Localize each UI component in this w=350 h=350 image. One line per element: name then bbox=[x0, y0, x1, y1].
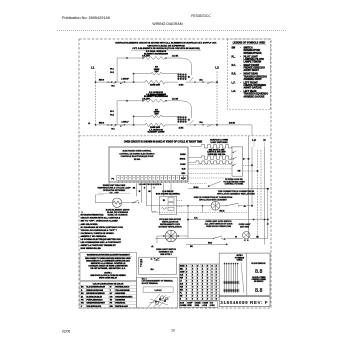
svg-text:OVEN DOOR OPEN/CLOSE: OVEN DOOR OPEN/CLOSE bbox=[206, 226, 232, 228]
surface element LF bottom wire bbox=[134, 124, 178, 126]
chart legend strip bbox=[179, 301, 217, 307]
model number FES367DCC bbox=[191, 14, 211, 18]
light switch assembly box bbox=[139, 257, 177, 274]
svg-text:LAMPARA PILOTO: LAMPARA PILOTO bbox=[244, 58, 265, 61]
svg-text:P4-2: P4-2 bbox=[110, 71, 114, 74]
surface element LF coil labels bbox=[142, 97, 179, 100]
surface element RF name label bottom bbox=[148, 91, 165, 96]
svg-text:NOTE 1: NOTE 1 bbox=[104, 272, 112, 274]
bake feed drop from EOC bbox=[95, 195, 104, 203]
svg-text:FES367DCC: FES367DCC bbox=[191, 14, 211, 18]
svg-text:CKT. D.ELEMENTS DE SURFACE (TO: CKT. D.ELEMENTS DE SURFACE (TOUS CIRCUIT… bbox=[132, 47, 199, 50]
switch oven light door switch bbox=[213, 236, 243, 240]
svg-text:P5: P5 bbox=[140, 260, 142, 262]
footer page number 10 bbox=[171, 329, 175, 333]
rail EOC to convection circuit bbox=[146, 183, 148, 206]
svg-text:BK-41: BK-41 bbox=[220, 210, 225, 213]
svg-text:WHEN UNIT REACHES: WHEN UNIT REACHES bbox=[103, 184, 126, 187]
svg-text:LEFT REAR: LEFT REAR bbox=[244, 90, 257, 93]
svg-text:SEE NOTE 3: SEE NOTE 3 bbox=[160, 254, 171, 256]
DLB relay output wires bbox=[177, 201, 183, 207]
bake element E1 bbox=[95, 198, 136, 207]
note 4 cell border bbox=[137, 277, 178, 308]
legend title bbox=[232, 42, 267, 44]
svg-text:AVANT DROIT: AVANT DROIT bbox=[244, 69, 260, 72]
display cell header bbox=[251, 262, 266, 265]
oven relay contact chart table bbox=[179, 264, 219, 301]
svg-text:318046089 REV: F: 318046089 REV: F bbox=[220, 300, 268, 305]
svg-text:RED 8: RED 8 bbox=[99, 123, 104, 125]
svg-text:14-4 BK: 14-4 BK bbox=[172, 97, 179, 100]
svg-text:BAKE ELEMENT 2500W: BAKE ELEMENT 2500W bbox=[106, 209, 130, 212]
svg-text:BAKE: BAKE bbox=[180, 153, 186, 156]
svg-text:MFG LATCH ASSEMBLY SEE LATCHE: MFG LATCH ASSEMBLY SEE LATCHES bbox=[217, 193, 255, 196]
svg-text:L1: L1 bbox=[88, 123, 90, 125]
door latch switch bbox=[208, 181, 221, 187]
svg-text:BOX SHOWN DE-ENERG.: BOX SHOWN DE-ENERG. bbox=[156, 193, 181, 195]
svg-text:WARNING/ADVERTENCIA/AVERTISSEM: WARNING/ADVERTENCIA/AVERTISSEMENT bbox=[87, 254, 131, 257]
EOC left edge stub bbox=[108, 182, 110, 186]
svg-text:TRASERO IZQUIERDO: TRASERO IZQUIERDO bbox=[244, 93, 269, 96]
assembly pin list bbox=[140, 260, 143, 268]
svg-text:ON - OFF: ON - OFF bbox=[109, 193, 119, 195]
surface element LF terminal cluster bbox=[177, 116, 193, 129]
bake element label bbox=[106, 209, 130, 217]
note 4 text bbox=[142, 277, 174, 285]
svg-text:8.8: 8.8 bbox=[255, 269, 263, 275]
part number box 318046089 bbox=[219, 297, 270, 307]
convection fan motor M1 bbox=[147, 201, 220, 210]
oven light lamp L1 bbox=[235, 232, 268, 242]
svg-text:LES COMMANDES SUR LA POSITION: LES COMMANDES SUR LA POSITION ET bbox=[81, 241, 122, 244]
EOC pin labels bbox=[180, 153, 187, 180]
surface element LF top wire bbox=[117, 100, 191, 118]
N rail vertical bbox=[264, 147, 266, 245]
junction triangle below cooling fan bbox=[151, 245, 154, 247]
svg-text:SP-1: SP-1 bbox=[110, 111, 114, 113]
clock control assembly outer box bbox=[219, 253, 270, 295]
svg-text:VIOLET/VIOLETA: VIOLET/VIOLETA bbox=[87, 305, 102, 308]
oven light label bbox=[239, 224, 252, 229]
surface element LF middle wire bbox=[134, 115, 181, 117]
svg-text:MOTEUR VENTILATEUR: MOTEUR VENTILATEUR bbox=[158, 226, 182, 229]
EOC terminal strip lead stubs bbox=[118, 180, 185, 186]
surface element RF coil labels bbox=[142, 55, 179, 58]
svg-text:DLB: DLB bbox=[182, 169, 186, 171]
wire N.O. row bbox=[187, 218, 269, 221]
svg-text:MFG LATCH WITH CURRENT: MFG LATCH WITH CURRENT bbox=[199, 198, 227, 201]
surface element RF inner coil element bbox=[151, 67, 162, 75]
node L2 (surface supply) bbox=[215, 66, 219, 125]
vertical stub under conv wire bbox=[202, 205, 204, 213]
clock display glyph upper bbox=[255, 269, 263, 275]
surface element RF left vertical bbox=[133, 73, 135, 83]
svg-text:INTERRUPTEUR: INTERRUPTEUR bbox=[244, 53, 262, 55]
svg-text:BLOCK TERMINAL: BLOCK TERMINAL bbox=[142, 282, 159, 285]
wire light assembly to rail 2 bbox=[243, 170, 259, 172]
oven light switch assembly label bbox=[156, 249, 177, 256]
svg-text:CONV: CONV bbox=[180, 164, 186, 166]
svg-text:TODOS LOS CONTROLES A "OFF" Y: TODOS LOS CONTROLES A "OFF" Y bbox=[81, 229, 118, 232]
svg-text:ES 300: ES 300 bbox=[134, 159, 140, 161]
L2 rail vertical bbox=[251, 147, 253, 206]
assembly connector marks bbox=[150, 258, 159, 261]
svg-text:ELEMENT 1200W: ELEMENT 1200W bbox=[148, 132, 165, 134]
DLB relay label bbox=[156, 190, 181, 195]
DLB relay internals bbox=[162, 198, 175, 211]
legend box bbox=[228, 39, 271, 110]
svg-text:SW: SW bbox=[238, 171, 241, 173]
svg-text:N: N bbox=[263, 138, 265, 142]
surface element LF feed vertical to outer coil bbox=[110, 101, 117, 125]
svg-text:14-4 BK: 14-4 BK bbox=[172, 55, 179, 58]
bake element note text bbox=[97, 184, 131, 195]
surface elements note text bbox=[115, 41, 217, 50]
switch SW-RF surface switch bbox=[107, 78, 129, 88]
svg-text:L.R.: L.R. bbox=[232, 91, 237, 93]
svg-text:SP-1: SP-1 bbox=[110, 68, 114, 70]
svg-text:8.8: 8.8 bbox=[255, 288, 263, 294]
svg-text:LE SCHEMA ELECTRIQUE METTRE S: LE SCHEMA ELECTRIQUE METTRE SUR bbox=[81, 238, 122, 241]
svg-text:ARRET LA PORTE EST FERMEE ET: ARRET LA PORTE EST FERMEE ET bbox=[81, 244, 117, 247]
node L1 (surface supply) bbox=[91, 66, 96, 125]
legend entries bbox=[232, 48, 269, 99]
svg-text:LT: LT bbox=[180, 281, 182, 283]
svg-text:ES 300 P12: ES 300 P12 bbox=[254, 281, 263, 283]
svg-text:3 CONV: 3 CONV bbox=[203, 303, 209, 305]
svg-text:A SW-LF: A SW-LF bbox=[121, 120, 128, 123]
wire light assembly to L2 rail bbox=[243, 164, 253, 166]
latch sketch bbox=[153, 257, 161, 261]
svg-text:L1 N L2: L1 N L2 bbox=[155, 290, 162, 292]
label between connectors bbox=[207, 149, 226, 156]
cooling fan note text bbox=[158, 218, 182, 229]
clock display glyph lower bbox=[255, 288, 263, 294]
surface element RF bottom wire bbox=[134, 81, 178, 83]
svg-text:DE CET APPAREIL. SEE NOTES 1 &: DE CET APPAREIL. SEE NOTES 1 & 2. bbox=[90, 267, 126, 270]
auxiliary rail 1 bbox=[248, 136, 250, 239]
svg-text:120V 40W: 120V 40W bbox=[240, 225, 249, 228]
wire color code table bbox=[80, 282, 137, 308]
assembly current label bbox=[150, 268, 154, 271]
svg-text:CABLE: CABLE bbox=[237, 258, 244, 261]
connector J2 square-wave row bbox=[188, 156, 232, 159]
svg-text:CIRCUIT SHOWN WITH ALL CONTROL: CIRCUIT SHOWN WITH ALL CONTROLS bbox=[81, 217, 121, 220]
svg-text:AVANT GAUCHE: AVANT GAUCHE bbox=[244, 87, 263, 90]
switch bake relay contact bbox=[132, 196, 139, 203]
oven light loop right vertical bbox=[266, 220, 269, 239]
surface element LF name label bottom bbox=[148, 128, 165, 133]
svg-text:AND UNLOCKED.: AND UNLOCKED. bbox=[81, 223, 99, 226]
auxiliary rail 2 bbox=[257, 150, 259, 239]
MDL wire to N rail bbox=[188, 186, 269, 220]
footer date 02/05 bbox=[62, 329, 70, 333]
svg-text:L1: L1 bbox=[91, 66, 95, 70]
surface element RF bottom coil element bbox=[145, 80, 165, 86]
junction triangle on convection wire bbox=[243, 205, 253, 207]
light assembly switch contacts bbox=[233, 151, 241, 173]
svg-text:CACERADO, PUERTA DE HORNO: CACERADO, PUERTA DE HORNO bbox=[81, 232, 115, 235]
svg-text:ELEMENT 3000W/1500W: ELEMENT 3000W/1500W bbox=[144, 53, 168, 55]
svg-text:PRF: PRF bbox=[180, 277, 183, 279]
svg-text:TEMPERATURE & CYCLES LAMP: TEMPERATURE & CYCLES LAMP bbox=[97, 187, 131, 190]
svg-text:ABIERTA Y NO CERRADA.: ABIERTA Y NO CERRADA. bbox=[81, 235, 108, 238]
EOC internal label bbox=[119, 151, 155, 161]
connector J1 square-wave row bbox=[190, 145, 232, 148]
svg-text:X=ON: X=ON bbox=[180, 303, 184, 305]
svg-text:LIGHT SWITCHES: LIGHT SWITCHES bbox=[210, 142, 228, 144]
svg-text:L2: L2 bbox=[252, 138, 256, 142]
svg-text:ELEM. DE CUISSON: ELEM. DE CUISSON bbox=[108, 215, 128, 217]
svg-text:NON VERROUILLEE.: NON VERROUILLEE. bbox=[81, 248, 102, 250]
ribbon cable label bbox=[235, 255, 245, 261]
svg-text:N.O.: N.O. bbox=[194, 218, 198, 220]
svg-text:W12: W12 bbox=[208, 242, 212, 244]
svg-text:PL: PL bbox=[180, 293, 182, 295]
surface element LF name label bbox=[144, 93, 168, 98]
svg-text:CLOCK DISPLAY: CLOCK DISPLAY bbox=[251, 262, 266, 265]
rail wire color labels bbox=[133, 188, 156, 194]
surface element RF terminal cluster bbox=[177, 73, 193, 86]
svg-text:1200W 240V: 1200W 240V bbox=[150, 83, 161, 86]
svg-text:ELEM. DE HORNEAR: ELEM. DE HORNEAR bbox=[107, 211, 128, 214]
switch convection relay bbox=[220, 203, 252, 206]
surface element LF outer coil element bbox=[142, 99, 167, 102]
svg-text:ELECTRONIC OVEN CONTROL: ELECTRONIC OVEN CONTROL bbox=[123, 151, 153, 153]
node N (neutral) bbox=[263, 138, 265, 147]
to EOC label bbox=[223, 179, 245, 186]
svg-text:CONTROL P2 CONN.: CONTROL P2 CONN. bbox=[225, 184, 244, 186]
publication number header bbox=[62, 16, 110, 20]
wire LF cluster to L2 rail bbox=[190, 124, 218, 126]
svg-text:Publication No: 5995429148: Publication No: 5995429148 bbox=[62, 16, 110, 20]
svg-text:OPEN: OPEN bbox=[187, 305, 191, 307]
notes text block bbox=[81, 214, 124, 251]
svg-text:OVEN CIRCUIT IS SHOWN IN BAKE: OVEN CIRCUIT IS SHOWN IN BAKE AT START O… bbox=[124, 141, 203, 144]
svg-text:5 LT: 5 LT bbox=[210, 303, 213, 305]
wire RF cluster to L2 bbox=[190, 81, 218, 83]
rail EOC to bake circuit bbox=[135, 183, 137, 196]
label surface and oven light switches bbox=[210, 138, 228, 143]
EOC connector P1 terminal strip bbox=[112, 175, 188, 180]
svg-text:CONTROL DE HORNO ELECTRONICO: CONTROL DE HORNO ELECTRONICO bbox=[119, 153, 155, 155]
svg-text:ELEMENT 3000W/1500W: ELEMENT 3000W/1500W bbox=[144, 96, 168, 98]
svg-text:SURFACE ELEMENTS CIRCUIT IS SH: SURFACE ELEMENTS CIRCUIT IS SHOWN WITH A… bbox=[115, 41, 217, 44]
warning box text bbox=[84, 254, 132, 280]
surface element RF middle wire bbox=[134, 73, 181, 75]
wire light assembly to rail (junction) bbox=[243, 158, 250, 160]
svg-text:CIRCUITO D.ELEM. DE SUPERFICIE: CIRCUITO D.ELEM. DE SUPERFICIE bbox=[147, 45, 185, 47]
wire L1 feed to RF switch bbox=[95, 80, 134, 83]
connector note label bbox=[217, 191, 255, 196]
surface element LF left vertical bbox=[133, 116, 135, 126]
svg-text:WIRING DIAGRAM: WIRING DIAGRAM bbox=[152, 22, 182, 26]
ribbon connector blocks bbox=[223, 281, 239, 292]
node L2 (oven supply) bbox=[252, 126, 256, 147]
switch on RF return wire bbox=[199, 78, 212, 84]
svg-text:RED 8: RED 8 bbox=[99, 80, 104, 82]
svg-text:P.L.: P.L. bbox=[232, 56, 236, 58]
DLB relay K1 box bbox=[160, 196, 177, 214]
cut line (dotted separator) bbox=[57, 30, 287, 32]
surface element LF inner coil element bbox=[151, 110, 162, 118]
title WIRING DIAGRAM bbox=[152, 22, 182, 26]
svg-text:CLOSED: CLOSED bbox=[180, 305, 187, 307]
svg-text:CONTROLE ELECTRONIQUE FOUR: CONTROLE ELECTRONIQUE FOUR bbox=[121, 156, 154, 158]
surface element LF bottom coil element bbox=[145, 123, 165, 129]
wires EOC pins to light switch assembly bbox=[188, 164, 232, 178]
svg-text:RIGHT REAR: RIGHT REAR bbox=[244, 73, 259, 76]
oven light auto switch label bbox=[205, 220, 233, 228]
surface element RF feed vertical to outer coil bbox=[110, 58, 117, 82]
switch SW-LF surface switch bbox=[107, 120, 129, 130]
svg-text:02/05: 02/05 bbox=[62, 329, 70, 333]
svg-text:2: 2 bbox=[82, 212, 83, 214]
cooling fan motor M2 bbox=[163, 230, 179, 242]
svg-text:TRASERO DERECHO: TRASERO DERECHO bbox=[244, 75, 268, 78]
svg-text:MDL: MDL bbox=[180, 290, 183, 292]
surface element RF outer coil element bbox=[142, 57, 167, 60]
vertical branch left of light circuit bbox=[187, 205, 189, 238]
svg-text:O=OFF: O=OFF bbox=[187, 303, 192, 305]
svg-text:WITH OVEN RELAY: WITH OVEN RELAY bbox=[99, 277, 118, 280]
switch on LF return wire bbox=[199, 121, 212, 127]
oven light switch assembly box bbox=[232, 147, 243, 176]
section separator dashed line bbox=[79, 135, 271, 137]
svg-text:WHITE-BLACK: WHITE-BLACK bbox=[115, 305, 128, 308]
svg-text:10: 10 bbox=[171, 329, 175, 333]
svg-text:ARRIERE GAUCHE: ARRIERE GAUCHE bbox=[244, 95, 265, 98]
svg-text:A SW-RF: A SW-RF bbox=[121, 78, 128, 81]
terminal block drawing bbox=[143, 287, 173, 308]
wire BK return bbox=[186, 242, 228, 248]
svg-text:BROIL: BROIL bbox=[180, 158, 187, 160]
surface element RF name label bbox=[144, 50, 168, 55]
wire oven light feed bbox=[155, 237, 214, 239]
svg-text:BRL: BRL bbox=[180, 268, 183, 270]
svg-text:LAMPE TEMOIN: LAMPE TEMOIN bbox=[244, 61, 262, 64]
auxiliary rail 3 bbox=[260, 150, 262, 220]
wire L2 rail to oven section L2 bbox=[217, 122, 252, 136]
warning box bbox=[80, 253, 137, 281]
rail EOC to DLB relay bbox=[141, 183, 143, 203]
svg-text:R.F.: R.F. bbox=[232, 65, 236, 67]
wire L1 feed to LF switch bbox=[88, 123, 134, 126]
wire EOC lower pin to right bbox=[188, 183, 207, 185]
svg-text:SET TO "OFF", OVEN DOOR CLOSED: SET TO "OFF", OVEN DOOR CLOSED bbox=[81, 221, 119, 223]
oven circuit note text bbox=[124, 141, 203, 144]
svg-text:2 BRL: 2 BRL bbox=[195, 305, 199, 307]
surface element RF top wire bbox=[117, 57, 191, 75]
svg-text:EL DIAGRAMA SE VISTA ILUSTRADO: EL DIAGRAMA SE VISTA ILUSTRADO CON bbox=[81, 226, 124, 229]
dashed wire below convection bbox=[152, 210, 249, 213]
svg-text:LEGEND OF SYMBOLS USED: LEGEND OF SYMBOLS USED bbox=[233, 42, 266, 44]
rail EOC aux down bbox=[151, 183, 153, 211]
display cell middle text bbox=[252, 277, 267, 283]
DLB feeder rails bbox=[164, 183, 172, 196]
svg-text:21A BK: 21A BK bbox=[229, 122, 236, 125]
diagram border frame bbox=[79, 39, 271, 308]
svg-text:L.F.: L.F. bbox=[232, 82, 236, 84]
svg-text:OPERATES BETWEEN: OPERATES BETWEEN bbox=[103, 189, 126, 192]
svg-text:ARRIERE DROIT: ARRIERE DROIT bbox=[244, 78, 263, 81]
left border circuit number mark bbox=[82, 212, 83, 214]
convection fan note bbox=[194, 196, 233, 202]
connector J3 row bbox=[188, 161, 231, 164]
keyboard ribbon cable strands bbox=[224, 263, 244, 294]
svg-text:K1: K1 bbox=[163, 200, 165, 202]
svg-text:R.R.: R.R. bbox=[232, 74, 237, 76]
thermal switch S2 bbox=[152, 210, 157, 213]
wire cooling fan connections bbox=[157, 236, 188, 243]
svg-text:L2: L2 bbox=[215, 66, 219, 70]
svg-text:P4-2: P4-2 bbox=[110, 114, 114, 117]
svg-text:NOTAS/NOTES/NOTAS:: NOTAS/NOTES/NOTAS: bbox=[81, 214, 105, 217]
electronic oven control U1 (EOC) box bbox=[109, 147, 188, 182]
